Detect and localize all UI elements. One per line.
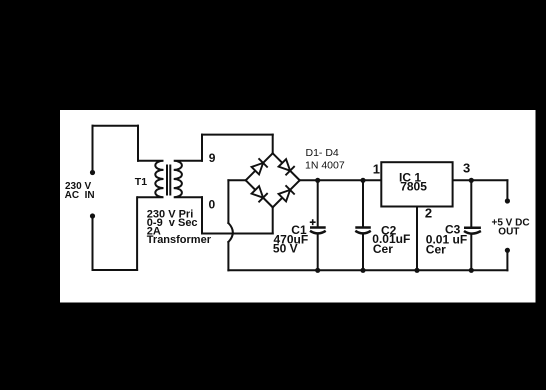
svg-text:50 V: 50 V [273, 242, 298, 256]
label transformer specs [147, 208, 212, 246]
svg-text:D1- D4: D1- D4 [306, 147, 339, 159]
capacitor C1 plates [310, 226, 326, 229]
wire ground rail [228, 269, 507, 271]
transformer T1 secondary winding [174, 161, 202, 197]
svg-text:OUT: OUT [498, 226, 519, 237]
capacitor C1 top lead [317, 180, 319, 227]
node C1 top junction [315, 178, 320, 183]
wire primary top drop [137, 126, 139, 161]
svg-text:9: 9 [209, 151, 216, 165]
capacitor C1 bottom lead [317, 234, 319, 271]
svg-text:1: 1 [373, 162, 380, 177]
svg-text:7805: 7805 [400, 180, 427, 194]
label +5V DC OUT [492, 218, 530, 238]
wire secondary 0 drop [201, 197, 203, 233]
node AC terminal upper [90, 170, 95, 175]
node C3 top junction [469, 178, 474, 183]
bridge edge top-left [246, 153, 273, 180]
wire output riser lower [506, 250, 508, 270]
diode D1 [251, 158, 268, 175]
node pin2 bottom junction [414, 268, 419, 273]
capacitor C2 top lead [362, 180, 364, 227]
svg-text:AC IN: AC IN [65, 190, 95, 201]
bridge edge top-right [273, 153, 300, 180]
capacitor C1 plus sign [310, 219, 316, 225]
wire left drop upper [227, 180, 229, 223]
wire secondary 9 riser [201, 135, 203, 161]
svg-text:0: 0 [209, 197, 216, 211]
svg-text:T1: T1 [135, 176, 147, 188]
wire bridge left out [228, 179, 245, 181]
node C1 bottom junction [315, 268, 320, 273]
label 230 V AC IN [65, 181, 95, 201]
wire 9 to bridge top [202, 134, 273, 136]
bridge edge bottom-right [273, 180, 300, 207]
bridge edge bottom-left [246, 180, 273, 207]
label D1-D4 1N4007 [305, 147, 345, 171]
capacitor C3 bottom lead [470, 234, 472, 270]
wire IC pin3 to output [453, 179, 508, 181]
svg-text:2: 2 [425, 205, 432, 220]
wire AC left lower [92, 216, 94, 270]
wire bridge right to IC pin1 [300, 179, 382, 181]
wire hop over 0 line [228, 223, 232, 242]
node output terminal upper [505, 198, 510, 203]
label IC1 7805 [399, 170, 427, 193]
wire left drop lower [227, 242, 229, 270]
transformer T1 primary winding [138, 161, 164, 197]
wire primary bottom drop [136, 197, 138, 270]
white schematic panel [60, 110, 536, 303]
label C2 value [372, 223, 410, 256]
wire IC pin2 drop [416, 207, 418, 271]
wire bridge bottom riser [272, 207, 274, 233]
wire output riser upper [506, 180, 508, 201]
capacitor C2 bottom lead [362, 234, 364, 271]
node C3 bottom junction [469, 268, 474, 273]
svg-text:1N 4007: 1N 4007 [305, 159, 345, 171]
wire AC bottom [93, 269, 138, 271]
svg-text:Transformer: Transformer [147, 234, 212, 246]
svg-text:Cer: Cer [373, 242, 393, 256]
svg-text:3: 3 [463, 160, 470, 175]
diode D2 [278, 158, 295, 175]
node AC terminal lower [90, 213, 95, 218]
svg-text:Cer: Cer [426, 242, 446, 256]
diode D4 [278, 185, 295, 202]
capacitor C3 top lead [470, 180, 472, 227]
capacitor C2 plates [355, 226, 371, 229]
label C1 value [273, 223, 308, 256]
wire 0 to bridge bottom [202, 233, 273, 235]
transformer T1 core [167, 166, 170, 195]
capacitor C3 plates [464, 227, 481, 230]
wire AC input top [93, 125, 139, 127]
diode D3 [251, 185, 268, 202]
op-amp IC1 regulator box [381, 162, 452, 206]
wire AC left upper [92, 126, 94, 173]
label C3 value [426, 222, 467, 256]
wire bridge top drop [272, 135, 274, 154]
node C2 top junction [360, 178, 365, 183]
node output terminal lower [505, 248, 510, 253]
node C2 bottom junction [360, 268, 365, 273]
